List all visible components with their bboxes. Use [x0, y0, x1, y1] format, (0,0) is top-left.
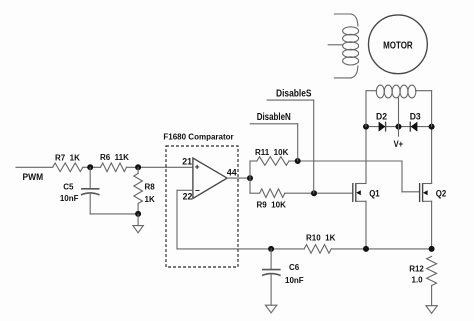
node F — [311, 190, 317, 196]
motor M1 — [369, 15, 428, 74]
svg-text:R12: R12 — [409, 264, 424, 273]
svg-text:+: + — [195, 162, 200, 172]
wire — [137, 204, 139, 214]
resistor R8 — [134, 174, 155, 204]
svg-text:PWM: PWM — [23, 172, 44, 183]
op-amp U1 — [193, 158, 227, 198]
svg-text:1.0: 1.0 — [412, 276, 424, 285]
svg-text:C5: C5 — [63, 183, 74, 192]
node D — [247, 175, 253, 181]
svg-text:Q1: Q1 — [369, 188, 380, 199]
capacitor C6 — [262, 263, 304, 285]
wire — [331, 248, 431, 250]
label PWM — [23, 172, 44, 183]
resistor R6 — [100, 153, 129, 172]
wire — [137, 167, 139, 173]
resistor R10 — [304, 233, 335, 253]
diode D3 — [410, 111, 421, 131]
label DisableS — [276, 88, 312, 99]
wire — [83, 166, 101, 168]
wire — [90, 193, 138, 214]
wire — [365, 127, 367, 184]
comparator box — [166, 146, 238, 267]
wire — [270, 249, 272, 270]
wire — [127, 166, 193, 168]
node K — [363, 246, 369, 252]
wire — [250, 124, 297, 161]
wire — [270, 274, 272, 305]
node E — [295, 158, 301, 164]
capacitor C5 — [60, 183, 100, 204]
node L — [429, 246, 435, 252]
svg-text:R10 1K: R10 1K — [306, 233, 336, 242]
resistor R11 — [255, 148, 289, 165]
svg-text:R6 11K: R6 11K — [100, 153, 129, 162]
wire — [267, 100, 314, 193]
transistor Q2 — [420, 183, 447, 202]
svg-text:V+: V+ — [394, 139, 404, 149]
label DisableN — [257, 112, 291, 123]
pin 21 — [182, 157, 192, 167]
svg-text:10nF: 10nF — [60, 194, 79, 203]
svg-text:21: 21 — [182, 157, 192, 167]
resistor R7 — [53, 154, 83, 172]
svg-text:R11 10K: R11 10K — [255, 148, 289, 157]
resistor R9 — [257, 189, 287, 210]
ground — [133, 226, 143, 233]
svg-text:1K: 1K — [145, 195, 155, 204]
svg-text:DisableN: DisableN — [257, 112, 291, 123]
svg-text:Q2: Q2 — [436, 188, 447, 199]
svg-text:DisableS: DisableS — [276, 88, 312, 99]
wire — [431, 127, 433, 184]
svg-text:22: 22 — [183, 192, 193, 202]
wire — [366, 126, 432, 128]
svg-text:10nF: 10nF — [285, 276, 304, 285]
node B — [135, 164, 141, 170]
inductor L2 — [366, 85, 432, 127]
wire — [431, 286, 433, 306]
svg-text:R9 10K: R9 10K — [257, 201, 287, 210]
ground — [265, 305, 276, 313]
wire — [16, 166, 53, 168]
label F1680 Comparator — [163, 133, 233, 142]
resistor R12 — [409, 256, 436, 285]
transistor Q1 — [353, 183, 380, 202]
node H — [396, 124, 402, 130]
wire — [365, 201, 367, 249]
svg-text:D3: D3 — [410, 111, 421, 121]
net V+ — [394, 127, 404, 150]
ground — [426, 306, 437, 314]
wire — [177, 190, 304, 249]
inductor L1 — [328, 14, 358, 78]
node A — [87, 164, 93, 170]
node I — [429, 124, 435, 130]
wire — [250, 161, 420, 192]
svg-text:C6: C6 — [289, 263, 300, 272]
svg-text:D2: D2 — [376, 111, 387, 121]
wire — [250, 192, 352, 194]
wire — [431, 201, 433, 249]
diode D2 — [376, 111, 387, 131]
wire — [227, 177, 250, 179]
wire — [249, 161, 251, 193]
svg-text:F1680 Comparator: F1680 Comparator — [163, 133, 233, 142]
pin 22 — [183, 192, 193, 202]
svg-text:44: 44 — [227, 168, 237, 178]
svg-text:MOTOR: MOTOR — [383, 40, 413, 51]
svg-text:R8: R8 — [145, 183, 156, 192]
wire — [89, 167, 91, 189]
node C — [135, 211, 141, 217]
node J — [268, 246, 274, 252]
node G — [363, 124, 369, 130]
wire — [137, 214, 139, 226]
svg-text:R7 1K: R7 1K — [55, 154, 80, 163]
svg-text:−: − — [195, 186, 200, 196]
pin 44 — [227, 168, 237, 178]
